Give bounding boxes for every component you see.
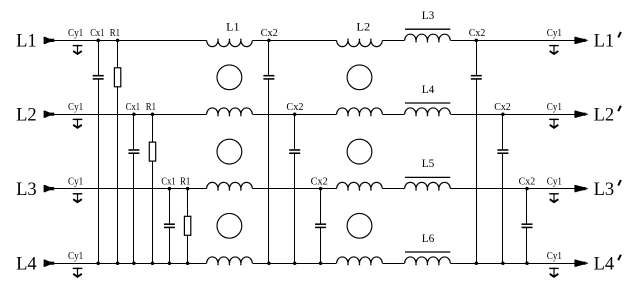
core circle of choke L1: [217, 213, 242, 238]
junction node L4-Cx2 out (row 1): [475, 261, 479, 265]
inductor winding inductor L6 winding: [405, 257, 451, 263]
junction node L3-R1: [186, 187, 190, 191]
svg-text:R1: R1: [146, 101, 156, 113]
wire Cx2 out upper lead row 2: [502, 114, 504, 149]
svg-text:L5: L5: [422, 158, 435, 170]
svg-text:L4: L4: [16, 254, 37, 275]
prime mark of L1': [618, 32, 621, 38]
capacitor Cx1 (L2-L4): [128, 149, 139, 154]
svg-text:Cy1: Cy1: [68, 101, 83, 113]
svg-text:Cy1: Cy1: [547, 250, 562, 262]
wire L1 line row 1 (middle segment): [252, 40, 336, 42]
junction node L4-Cx1 (row 2 group): [132, 261, 136, 265]
core circle of choke L2: [347, 213, 372, 238]
junction node L4-Cx2 out (row 3): [525, 261, 529, 265]
wire Cx1 upper lead row 2: [133, 114, 135, 149]
wire L3 line row 3 (left segment): [51, 188, 207, 190]
wire Cx1 lower lead row 1: [98, 80, 100, 264]
capacitor Cy1 on line L1 (left) (line-to-ground Y-cap with ground arrow): [73, 45, 83, 54]
wire L2 line row 2 (left segment): [51, 114, 207, 116]
capacitor Cx2 mid (L1-L4): [263, 75, 274, 80]
core circle of choke L1: [217, 139, 242, 164]
svg-text:Cx1: Cx1: [90, 27, 104, 39]
svg-text:L6: L6: [422, 233, 435, 245]
core bar of inductor L3: [405, 28, 450, 30]
svg-text:L2: L2: [356, 22, 370, 34]
svg-text:Cx1: Cx1: [126, 101, 140, 113]
svg-text:R1: R1: [110, 27, 120, 39]
junction node L1-Cx2 out: [475, 39, 479, 43]
resistor R1 (L1-L4): [114, 68, 120, 87]
wire Cx2 mid upper lead row 3: [320, 189, 322, 224]
junction node L4-R1 (row 3 group): [186, 261, 190, 265]
wire R1 lower lead row 2: [152, 161, 154, 263]
core circle of choke L2: [347, 65, 372, 90]
svg-text:L3: L3: [16, 179, 37, 200]
svg-text:Cy1: Cy1: [68, 250, 83, 262]
svg-text:Cx2: Cx2: [469, 27, 486, 39]
svg-text:L3: L3: [594, 179, 615, 200]
inductor winding L1 choke winding row 1: [207, 40, 253, 46]
terminal L4 input (input port): [44, 260, 55, 267]
junction node L3-Cx2 out: [525, 187, 529, 191]
wire L2 line row 2 (segment before series inductor): [382, 114, 404, 116]
terminal L1 output (output port): [574, 37, 587, 44]
terminal L3 output (output port): [574, 185, 587, 192]
junction node L4-R1 (row 2 group): [151, 261, 155, 265]
wire Cx2 mid upper lead row 1: [268, 40, 270, 75]
terminal L3 input (input port): [44, 185, 55, 192]
svg-text:Cx2: Cx2: [519, 175, 536, 187]
wire Cx2 mid lower lead row 2: [294, 154, 296, 263]
wire Cx2 out upper lead row 3: [526, 189, 528, 224]
capacitor Cx2 out (L1-L4): [471, 75, 482, 80]
core circle of choke L1: [217, 65, 242, 90]
wire L4 line row 4 (left segment): [51, 263, 207, 265]
junction node L2-Cx1: [132, 112, 136, 116]
capacitor Cy1 on line L1 (right) (line-to-ground Y-cap with ground arrow): [549, 45, 559, 54]
inductor winding inductor L4 winding: [405, 108, 451, 114]
junction node L2-R1: [151, 112, 155, 116]
wire L1 line row 1 (left segment): [51, 40, 207, 42]
core bar of inductor L6: [405, 251, 450, 253]
inductor winding inductor L5 winding: [405, 182, 451, 188]
core bar of inductor L4: [405, 102, 450, 104]
wire Cx2 out lower lead row 2: [502, 154, 504, 263]
junction node L4-Cx2 out (row 2): [501, 261, 505, 265]
svg-text:R1: R1: [180, 175, 190, 187]
wire L4 line row 4 (segment before series inductor): [382, 263, 404, 265]
wire L3 line row 3 (middle segment): [252, 188, 336, 190]
prime mark of L4': [618, 255, 621, 261]
wire Cx2 mid upper lead row 2: [294, 114, 296, 149]
junction node L4-Cx1 (row 1 group): [96, 261, 100, 265]
prime mark of L3': [618, 180, 621, 186]
junction node L1-Cx2 mid: [267, 39, 271, 43]
wire L3 line row 3 (segment before series inductor): [382, 188, 404, 190]
svg-text:Cx2: Cx2: [494, 101, 511, 113]
junction node L4-Cx2 mid (row 1): [267, 261, 271, 265]
svg-text:Cy1: Cy1: [547, 27, 562, 39]
inductor winding L1 choke winding row 3: [207, 182, 253, 188]
svg-text:L1: L1: [16, 31, 37, 52]
terminal L1 input (input port): [44, 37, 55, 44]
svg-text:Cy1: Cy1: [547, 175, 562, 187]
wire Cx1 upper lead row 1: [98, 40, 100, 75]
wire Cx2 mid lower lead row 3: [320, 228, 322, 263]
inductor winding L1 choke winding row 2: [207, 108, 253, 114]
resistor R1 (L2-L4): [149, 142, 155, 161]
svg-text:L4: L4: [594, 254, 615, 275]
wire R1 lower lead row 3: [187, 235, 189, 263]
svg-text:L2: L2: [594, 105, 615, 126]
svg-text:Cx1: Cx1: [161, 175, 175, 187]
wire Cx1 upper lead row 3: [169, 189, 171, 224]
wire Cx2 out lower lead row 1: [476, 80, 478, 264]
capacitor Cy1 on line L2 (right) (line-to-ground Y-cap with ground arrow): [549, 119, 559, 128]
svg-text:L2: L2: [16, 105, 37, 126]
wire Cx1 lower lead row 3: [169, 228, 171, 263]
capacitor Cx2 out (L3-L4): [522, 223, 533, 228]
junction node L4-Cx1 (row 3 group): [168, 261, 172, 265]
capacitor Cx2 mid (L2-L4): [289, 149, 300, 154]
wire L4 line row 4 (middle segment): [252, 263, 336, 265]
junction node L4-Cx2 mid (row 3): [319, 261, 323, 265]
capacitor Cy1 on line L2 (left) (line-to-ground Y-cap with ground arrow): [73, 119, 83, 128]
inductor winding L2 choke winding row 2: [337, 108, 383, 114]
junction node L2-Cx2 out: [501, 112, 505, 116]
svg-text:Cy1: Cy1: [547, 101, 562, 113]
wire R1 upper lead row 2: [152, 114, 154, 142]
svg-text:L4: L4: [422, 84, 435, 96]
junction node L4-R1 (row 1 group): [116, 261, 120, 265]
wire L2 line row 2 (right segment): [451, 114, 575, 116]
svg-text:L1: L1: [594, 31, 615, 52]
resistor R1 (L3-L4): [184, 216, 190, 235]
svg-text:L3: L3: [422, 10, 435, 22]
core bar of inductor L5: [405, 176, 450, 178]
core circle of choke L2: [347, 139, 372, 164]
inductor winding L2 choke winding row 1: [337, 40, 383, 46]
junction node L1-Cx1: [96, 39, 100, 43]
junction node L3-Cx1: [168, 187, 172, 191]
capacitor Cx1 (L1-L4): [93, 75, 104, 80]
inductor winding inductor L3 winding: [405, 34, 451, 40]
capacitor Cx1 (L3-L4): [164, 223, 175, 228]
prime mark of L2': [618, 106, 621, 112]
capacitor Cy1 on line L3 (right) (line-to-ground Y-cap with ground arrow): [549, 193, 559, 202]
wire Cx2 out upper lead row 1: [476, 40, 478, 75]
wire L4 line row 4 (right segment): [451, 263, 575, 265]
svg-text:Cx2: Cx2: [286, 101, 303, 113]
capacitor Cx2 out (L2-L4): [497, 149, 508, 154]
svg-text:Cx2: Cx2: [261, 27, 278, 39]
inductor winding L2 choke winding row 4: [337, 257, 383, 263]
inductor winding L1 choke winding row 4: [207, 257, 253, 263]
wire Cx2 mid lower lead row 1: [268, 80, 270, 264]
terminal L4 output (output port): [574, 260, 587, 267]
wire R1 upper lead row 1: [117, 40, 119, 67]
terminal L2 input (input port): [44, 111, 55, 118]
junction node L4-Cx2 mid (row 2): [293, 261, 297, 265]
junction node L2-Cx2 mid: [293, 112, 297, 116]
terminal L2 output (output port): [574, 111, 587, 118]
wire R1 upper lead row 3: [187, 189, 189, 217]
svg-text:L1: L1: [226, 22, 240, 34]
svg-text:Cy1: Cy1: [68, 27, 83, 39]
wire Cx2 out lower lead row 3: [526, 228, 528, 263]
inductor winding L2 choke winding row 3: [337, 182, 383, 188]
capacitor Cx2 mid (L3-L4): [315, 223, 326, 228]
capacitor Cy1 on line L4 (left) (line-to-ground Y-cap with ground arrow): [73, 268, 83, 277]
junction node L3-Cx2 mid: [319, 187, 323, 191]
wire R1 lower lead row 1: [117, 87, 119, 263]
capacitor Cy1 on line L3 (left) (line-to-ground Y-cap with ground arrow): [73, 193, 83, 202]
junction node L1-R1: [116, 39, 120, 43]
svg-text:Cy1: Cy1: [68, 175, 83, 187]
svg-text:Cx2: Cx2: [311, 175, 328, 187]
wire L1 line row 1 (right segment): [451, 40, 575, 42]
wire Cx1 lower lead row 2: [133, 154, 135, 263]
wire L3 line row 3 (right segment): [451, 188, 575, 190]
wire L1 line row 1 (segment before series inductor): [382, 40, 404, 42]
capacitor Cy1 on line L4 (right) (line-to-ground Y-cap with ground arrow): [549, 268, 559, 277]
wire L2 line row 2 (middle segment): [252, 114, 336, 116]
